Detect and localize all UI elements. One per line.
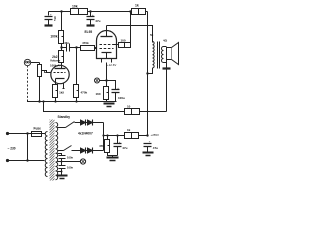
svg-text:47k: 47k — [99, 144, 104, 148]
svg-text:Volume: Volume — [50, 59, 61, 63]
svg-text:4x1N4007: 4x1N4007 — [78, 132, 93, 136]
svg-text:47u: 47u — [153, 146, 158, 150]
svg-text:100u: 100u — [118, 96, 125, 100]
svg-text:1k: 1k — [127, 128, 131, 132]
svg-text:100: 100 — [121, 38, 126, 42]
svg-text:47u: 47u — [95, 19, 100, 23]
svg-text:EL95: EL95 — [85, 30, 93, 34]
svg-text:~ 230: ~ 230 — [8, 147, 16, 151]
svg-text:470k: 470k — [81, 91, 88, 95]
svg-text:160: 160 — [95, 92, 100, 96]
svg-text:470k: 470k — [82, 41, 89, 45]
svg-text:47u: 47u — [53, 16, 57, 21]
svg-text:+: + — [50, 13, 52, 17]
svg-text:10k: 10k — [72, 4, 78, 8]
svg-text:1k: 1k — [135, 3, 139, 7]
svg-text:100k: 100k — [50, 35, 57, 39]
svg-text:4Ω: 4Ω — [163, 39, 168, 43]
svg-text:+12.6V: +12.6V — [107, 63, 116, 67]
svg-text:47u: 47u — [122, 146, 127, 150]
svg-text:1k5: 1k5 — [59, 91, 64, 95]
svg-text:100n: 100n — [67, 166, 73, 170]
svg-text:47n: 47n — [64, 41, 69, 45]
svg-text:5k: 5k — [150, 33, 154, 37]
svg-text:+255V: +255V — [151, 133, 160, 137]
svg-text:100k-A: 100k-A — [50, 63, 60, 67]
svg-text:+: + — [92, 13, 94, 17]
svg-text:Fuse: Fuse — [34, 127, 42, 131]
svg-text:100n: 100n — [67, 156, 73, 160]
svg-text:Standby: Standby — [58, 115, 71, 119]
svg-text:10: 10 — [127, 105, 131, 109]
